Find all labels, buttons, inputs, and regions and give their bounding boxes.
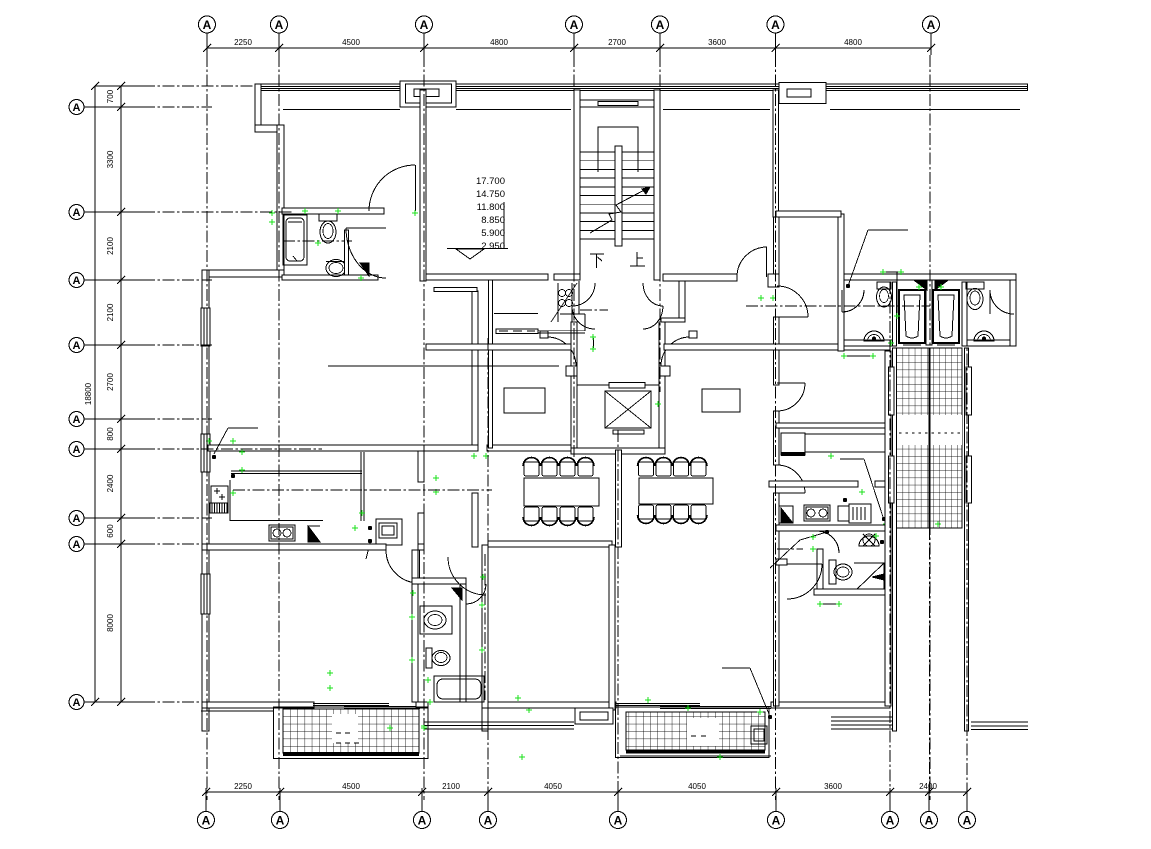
balcony hatch bottom-left [283, 709, 419, 753]
door D2 bathroom arc [346, 228, 386, 278]
green marks balcony BL [327, 670, 333, 676]
bottom-right unit bottom wall [771, 702, 890, 708]
door D3 swing door left lower petal [572, 306, 595, 329]
grid line y=345 [143, 344, 212, 346]
right unit west wall second [774, 317, 780, 385]
central hatched walkway [897, 348, 963, 528]
top-middle-right room bottom wall [663, 274, 737, 281]
green marks central [590, 334, 596, 340]
kitchen counter L-edge [229, 480, 231, 521]
axis bubble bottom x=967 [959, 812, 976, 829]
right unit west wall upper [774, 217, 780, 287]
dim bracket toilet [884, 271, 900, 273]
axis bubble top x=660 [652, 16, 669, 33]
svg-text:17.700: 17.700 [476, 176, 505, 187]
svg-text:2700: 2700 [106, 373, 115, 391]
bedroom top wall (left) [202, 544, 386, 550]
right unit bathroom [817, 549, 823, 592]
grid line y=518 [143, 517, 212, 519]
green marks balcony BR [645, 697, 651, 703]
svg-text:2400: 2400 [106, 474, 115, 492]
walkway bottom path lines [971, 721, 1028, 723]
axis bubble left y=544 [69, 537, 84, 552]
living room right wall [472, 291, 478, 451]
elevator door [609, 383, 645, 389]
level marker line and triangle [447, 248, 508, 250]
top-middle-left room bottom wall [426, 274, 548, 280]
chair right-bottom 1 [639, 505, 654, 519]
door D15 bedroom left [386, 550, 419, 583]
door D14 apartment entry right [842, 290, 864, 312]
bathroom sink [420, 606, 452, 634]
elevator counterweight [613, 430, 644, 434]
grid line x=574 [573, 55, 575, 460]
wall under stairwell left [554, 274, 580, 280]
grid line x=775.5 [775, 55, 777, 800]
stairwell right wall [654, 90, 660, 280]
top exterior wall [255, 84, 1028, 91]
leader line kitchen appliance [228, 427, 258, 429]
window bump top A [400, 81, 456, 107]
svg-text:A: A [73, 697, 81, 709]
leader top right [846, 284, 850, 288]
left-middle bedroom bottom wall [488, 702, 616, 708]
wall left of top-left bedroom [277, 125, 284, 272]
green marks kitchen area [206, 438, 212, 444]
grid line x=279 [278, 55, 280, 800]
top-left wall jog horizontal [255, 125, 284, 132]
leader line desk [328, 365, 559, 367]
svg-text:2100: 2100 [442, 782, 460, 791]
top-right hall east wall [838, 214, 844, 351]
right unit kitchen bottom wall [776, 525, 890, 531]
balcony hatch white gap [332, 714, 358, 743]
chair right-top 4 [691, 462, 706, 476]
svg-text:2250: 2250 [234, 782, 252, 791]
axis bubble left y=107 [69, 100, 84, 115]
walkway east wall [965, 348, 969, 731]
svg-text:5.900: 5.900 [481, 228, 505, 239]
wall jog right unit [768, 274, 779, 287]
balcony thick edge [283, 752, 419, 756]
right unit east wall [885, 351, 891, 706]
kitchen corner glyph [308, 526, 320, 542]
svg-text:3600: 3600 [708, 38, 726, 47]
bathroom left wall [412, 550, 418, 702]
svg-text:A: A [886, 813, 895, 827]
stair label up (shang) [630, 252, 645, 266]
desk with computer [376, 519, 402, 545]
chair right-bottom 3 [674, 505, 689, 519]
toilet twin left [877, 282, 891, 289]
stairwell left wall [574, 90, 580, 280]
svg-text:A: A [73, 414, 81, 426]
right unit hall-kitchen wall [776, 423, 887, 428]
svg-text:A: A [73, 207, 81, 219]
grid line y=449 [143, 448, 322, 450]
door D8 [777, 383, 805, 411]
axis bubble top x=207 [199, 16, 216, 33]
wall right of tubs [962, 282, 967, 346]
grid line y=280 [143, 279, 212, 281]
toilet twin right [966, 282, 984, 289]
grid line y=107 [143, 106, 212, 108]
chair left-bottom 1 [524, 507, 539, 521]
svg-text:700: 700 [106, 89, 115, 103]
meter niche by vestibule [557, 283, 559, 322]
door D4 swing door right lower petal [643, 306, 663, 329]
door corridor entry [448, 557, 486, 595]
toilet top-left bathroom [319, 214, 337, 221]
dining table right unit [639, 478, 713, 504]
chair right-top 2 [656, 462, 671, 476]
right unit bath bottom wall [814, 589, 890, 595]
living room top wall east segment [434, 288, 477, 292]
bathroom block top wall [841, 274, 1016, 280]
kitchen right unit corner glyph [781, 508, 792, 522]
svg-text:A: A [420, 18, 429, 32]
grid overlay y=419 [143, 418, 212, 420]
stair upper landing outline [598, 127, 638, 172]
dash line right unit hall [777, 548, 803, 550]
window bump top B [779, 83, 826, 104]
tap niche wedge left [915, 281, 927, 290]
grid overlay y=490 [233, 489, 492, 491]
dining table left unit [524, 478, 599, 506]
svg-text:A: A [656, 18, 665, 32]
balcony bottom-left outline [274, 707, 429, 759]
right hall step wall [661, 318, 685, 322]
sink twin left [864, 331, 884, 341]
axis bubble bottom x=280 [272, 812, 289, 829]
grid line x=207 [206, 55, 208, 800]
leader bottom-right [722, 667, 750, 669]
bottom dimension line [206, 791, 967, 793]
bathroom corner glyph [452, 588, 462, 600]
kitchen right unit stove [804, 505, 830, 521]
shower right unit [854, 563, 884, 592]
svg-text:4800: 4800 [490, 38, 508, 47]
vestibule right wall [659, 322, 665, 376]
grid line y=702 [143, 701, 212, 703]
green marks bathroom TL [269, 210, 275, 216]
grid line x=488 [487, 338, 489, 800]
window in left wall (living room) [201, 308, 210, 346]
bath door right unit [817, 531, 839, 553]
left dimension line segments [120, 86, 122, 702]
svg-text:3600: 3600 [824, 782, 842, 791]
elevator shaft bottom wall [571, 448, 665, 454]
bathroom block bottom wall right [962, 340, 1016, 346]
svg-text:2100: 2100 [106, 237, 115, 255]
svg-text:800: 800 [106, 427, 115, 441]
bath toilet right unit [829, 560, 836, 584]
bathroom top wall [412, 578, 466, 584]
top-left exterior wall vertical [255, 84, 261, 131]
left exterior wall [202, 270, 209, 731]
leader dots at computer [368, 526, 372, 530]
svg-text:A: A [570, 18, 579, 32]
entry door stub right [689, 331, 697, 338]
entry double door right leaf [661, 337, 690, 366]
vestibule wall flare right [659, 366, 670, 376]
bathroom block bottom wall left [841, 340, 896, 346]
svg-text:2.950: 2.950 [481, 241, 505, 252]
stair treads [580, 151, 654, 153]
window in left wall (lower bedroom) [201, 574, 210, 614]
kitchen right wall upper [418, 451, 424, 482]
door bathroom BM [466, 584, 486, 604]
hall bottom wall left unit [487, 445, 571, 451]
svg-text:2400: 2400 [919, 782, 937, 791]
svg-text:A: A [276, 813, 285, 827]
svg-text:A: A [418, 813, 427, 827]
shower corner mark top-left bathroom [360, 263, 369, 276]
svg-text:11.800: 11.800 [477, 202, 505, 213]
grid overlay x=967 [966, 295, 968, 800]
grid overlay x=775.5 [775, 55, 777, 800]
svg-text:A: A [202, 813, 211, 827]
grid line y=490 [233, 489, 492, 491]
chair left-top 1 [524, 462, 539, 476]
window in left wall (kitchen) [201, 434, 210, 472]
bath sink right unit [859, 536, 879, 546]
sink twin right [974, 331, 994, 341]
wall between top rooms on grid F [773, 90, 779, 217]
grid overlay y=702 [143, 701, 212, 703]
green marks bathroom BM [480, 574, 486, 580]
chair right-top 3 [674, 462, 689, 476]
axis bubble bottom x=776 [768, 812, 785, 829]
grid overlay x=574 [573, 55, 575, 460]
svg-text:A: A [73, 102, 81, 114]
steps at bottom-right entry [831, 716, 895, 718]
grid line y=212 [143, 211, 292, 213]
axis bubble left y=449 [69, 442, 84, 457]
balcony bottom-right outline [616, 707, 770, 758]
axis bubble top x=775.5 [767, 16, 784, 33]
niche right wall [578, 281, 580, 314]
hall dash line right [746, 305, 930, 307]
shaft line [494, 313, 538, 315]
inner wall face top-right room [830, 109, 1020, 111]
door D1 top-left bedroom [369, 165, 415, 211]
corridor dash center [484, 554, 486, 700]
bathroom partition wall [345, 230, 349, 275]
party wall bottom bedrooms [609, 545, 615, 710]
left-middle bedroom top wall [488, 541, 612, 547]
grid overlay x=660 [659, 55, 661, 392]
chair left-top 4 [578, 462, 593, 476]
grid line x=890 [889, 282, 891, 800]
bedroom top wall stub right unit [776, 559, 787, 565]
bathroom east wall [460, 584, 466, 702]
walkway west wall [893, 348, 897, 731]
svg-text:A: A [73, 513, 81, 525]
chair left-bottom 4 [578, 507, 593, 521]
walkway band dotted lines [899, 432, 960, 434]
terrace edge line bottom-left [201, 710, 274, 712]
wall left of tubs [893, 282, 897, 346]
niche bottom wall [560, 313, 585, 315]
grid line y=544 [143, 543, 212, 545]
svg-text:A: A [771, 18, 780, 32]
grid line x=424 [423, 55, 425, 800]
grid overlay y=518 [143, 517, 212, 519]
elevator shaft left wall [571, 376, 577, 454]
svg-text:A: A [927, 18, 936, 32]
green marks top right [880, 269, 886, 275]
svg-text:A: A [484, 813, 493, 827]
inner wall face top-middle-right room [663, 109, 770, 111]
axis bubble top x=574 [566, 16, 583, 33]
axis bubble bottom x=206 [198, 812, 215, 829]
mark line between greens [844, 355, 873, 357]
svg-text:A: A [73, 444, 81, 456]
balcony outer rail line [276, 758, 428, 760]
inner wall face top-left room [283, 109, 400, 111]
grid line x=930 [929, 55, 931, 800]
kitchen right wall lower [418, 513, 424, 545]
living room top wall [202, 270, 284, 277]
axis bubble bottom x=929 [921, 812, 938, 829]
svg-text:4500: 4500 [342, 782, 360, 791]
sink top-left bathroom [326, 260, 346, 277]
axis bubble left y=280 [69, 273, 84, 288]
right unit west wall mid [774, 411, 780, 465]
bathtub top-left bathroom [283, 215, 307, 265]
wall between twin bathrooms [926, 280, 932, 345]
svg-text:4050: 4050 [688, 782, 706, 791]
svg-text:A: A [275, 18, 284, 32]
axis bubble top x=279 [271, 16, 288, 33]
top-left bathroom top wall [282, 208, 384, 214]
entry double door left leaf [547, 337, 576, 366]
top-right room bottom walls [776, 211, 841, 217]
balcony BR planter box [751, 726, 767, 744]
right hall west wall [679, 281, 685, 322]
bathtub twin left [899, 290, 925, 343]
door D11 top-right room entry [737, 247, 767, 277]
grid line x=660 [659, 55, 661, 392]
svg-text:2250: 2250 [234, 38, 252, 47]
axis bubble bottom x=890 [882, 812, 899, 829]
axis bubble left y=212 [69, 205, 84, 220]
top wall centerline dash [95, 85, 143, 87]
door D10 bedroom right unit [787, 564, 822, 599]
gas pipe dash line left [580, 309, 608, 311]
grid overlay y=544 [143, 543, 212, 545]
top-left bathroom bottom wall [282, 275, 378, 280]
svg-text:8000: 8000 [106, 614, 115, 632]
chair right-bottom 2 [656, 505, 671, 519]
dot leader bath [825, 530, 829, 534]
left unit hall west wall [489, 280, 493, 448]
right unit closet [781, 433, 805, 455]
svg-text:4500: 4500 [342, 38, 360, 47]
grid overlay x=488 [487, 338, 489, 800]
balcony BR white gap [687, 718, 719, 746]
floor mat right [702, 389, 740, 412]
kitchen right unit sink rack [849, 504, 871, 523]
door hall right unit [777, 316, 808, 318]
inner wall face top-middle room [456, 109, 571, 111]
balcony BR thick edge [626, 750, 765, 754]
walkway center line below [929, 528, 931, 800]
grid overlay y=280 [143, 279, 212, 281]
stair label down (xia) [590, 254, 604, 268]
svg-text:A: A [772, 813, 781, 827]
leader right kitchen [840, 458, 864, 460]
green marks right unit [841, 353, 847, 359]
chair right-top 1 [639, 462, 654, 476]
corridor east wall [482, 545, 488, 708]
grid line x=967 [966, 295, 968, 800]
right unit west wall lower [774, 493, 780, 706]
grid overlay y=212 [143, 211, 292, 213]
axis bubble left y=345 [69, 338, 84, 353]
top dimension line [207, 47, 931, 49]
twin bathroom right wall [1010, 280, 1016, 346]
tap niche wedge right [935, 281, 947, 290]
dim bracket bath bottom [820, 603, 839, 605]
svg-text:A: A [73, 539, 81, 551]
steps below corridor [424, 721, 574, 723]
stair center rail [615, 146, 622, 246]
chair left-top 2 [542, 462, 557, 476]
living room bottom wall [208, 445, 478, 451]
kitchen counter return vertical [360, 452, 362, 521]
axis bubble bottom x=488 [480, 812, 497, 829]
svg-text:2100: 2100 [106, 303, 115, 321]
axis bubble left y=518 [69, 511, 84, 526]
walkway pilasters [889, 367, 895, 415]
svg-text:600: 600 [106, 524, 115, 538]
svg-text:A: A [963, 813, 972, 827]
grid overlay x=279 [278, 55, 280, 800]
right unit counter [805, 434, 887, 452]
svg-text:A: A [203, 18, 212, 32]
bathroom toilet [426, 648, 432, 668]
top-left bedroom right wall [420, 90, 426, 281]
svg-text:4050: 4050 [544, 782, 562, 791]
walkway white band [897, 415, 962, 445]
svg-text:2700: 2700 [608, 38, 626, 47]
door D12 right bathroom [990, 290, 1014, 314]
svg-text:A: A [73, 275, 81, 287]
corridor walls extension to steps [482, 708, 488, 731]
grid overlay x=930 [929, 55, 931, 800]
grid line y=419 [143, 418, 212, 420]
svg-text:A: A [925, 813, 934, 827]
svg-text:A: A [73, 340, 81, 352]
axis bubble top x=424 [416, 16, 433, 33]
balcony hatch bottom-right [626, 712, 765, 750]
grid line x=618 [617, 430, 619, 800]
svg-text:14.750: 14.750 [476, 189, 505, 200]
window band in hall wall [496, 329, 538, 334]
grid overlay x=207 [206, 55, 208, 800]
party wall between dining rooms [616, 450, 622, 547]
door D9 [777, 465, 805, 493]
chair left-bottom 2 [542, 507, 557, 521]
grid overlay x=890 [889, 282, 891, 800]
bathtub twin right [933, 290, 959, 343]
vestibule wall flare left [566, 366, 577, 376]
grid overlay x=424 [423, 55, 425, 800]
axis bubble left y=702 [69, 695, 84, 710]
right-middle bedroom sliding door band [616, 703, 700, 705]
